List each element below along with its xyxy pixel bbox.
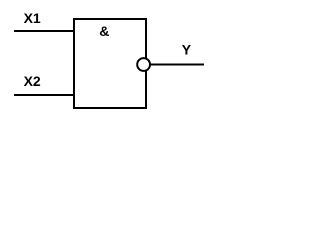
gate U1: NAND gate body (IEC rectangle) xyxy=(74,19,146,108)
output inversion bubble xyxy=(137,58,150,71)
svg-text:&: & xyxy=(99,23,109,39)
svg-text:Y: Y xyxy=(182,42,192,58)
svg-text:X2: X2 xyxy=(24,73,41,89)
wire: input X1 wire xyxy=(14,30,75,32)
wire: input X2 wire xyxy=(14,94,75,96)
wire: output Y wire xyxy=(150,64,204,66)
svg-text:X1: X1 xyxy=(24,10,41,26)
